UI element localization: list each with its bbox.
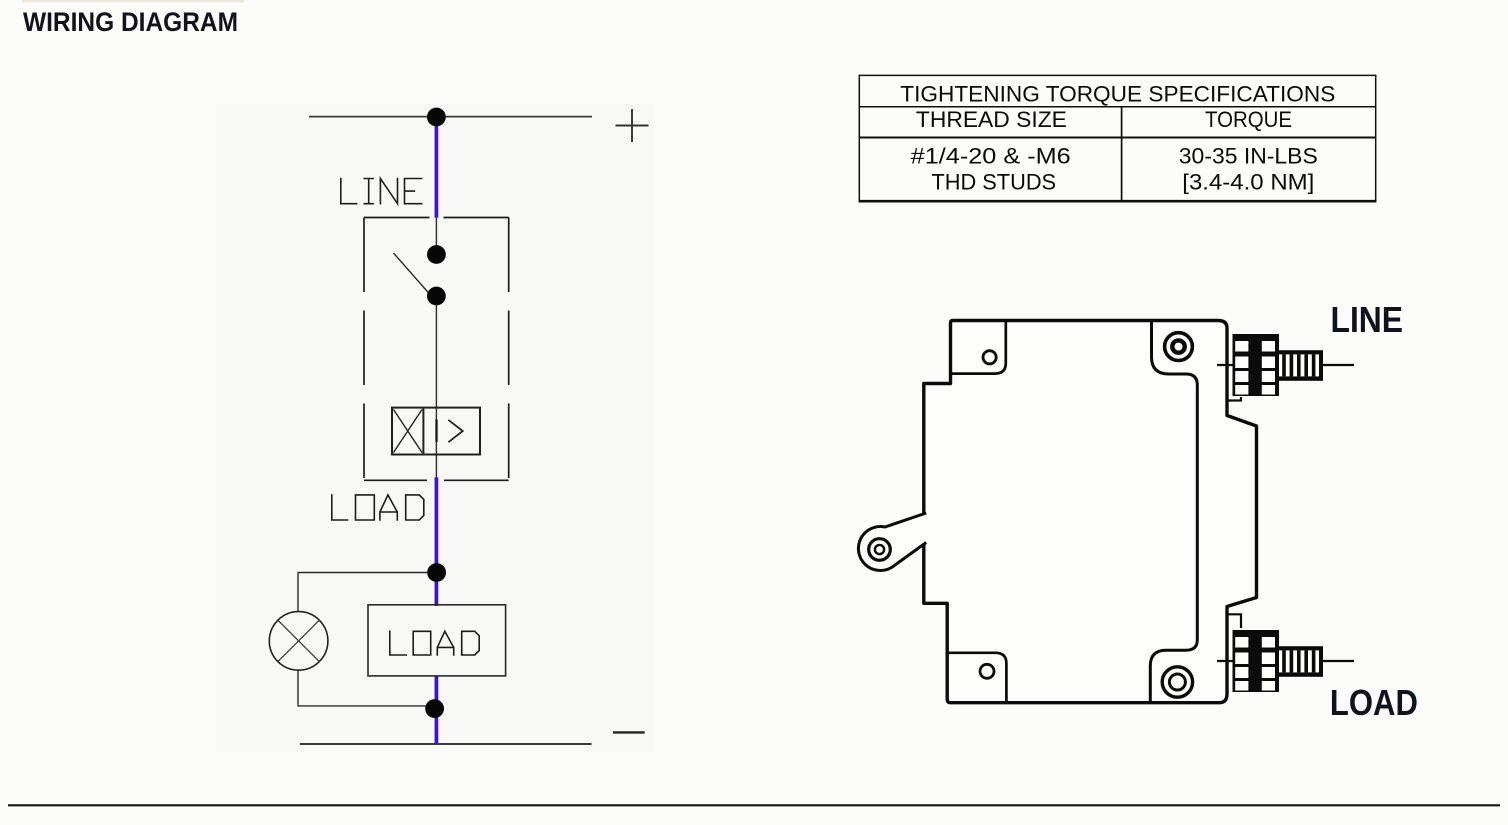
svg-text:#1/4-20 & -M6: #1/4-20 & -M6 (911, 144, 1071, 169)
svg-text:THREAD SIZE: THREAD SIZE (916, 107, 1067, 132)
svg-text:WIRING DIAGRAM: WIRING DIAGRAM (23, 7, 238, 37)
svg-text:THD STUDS: THD STUDS (931, 170, 1056, 195)
svg-text:TIGHTENING TORQUE SPECIFICATIO: TIGHTENING TORQUE SPECIFICATIONS (900, 81, 1335, 106)
svg-text:LINE: LINE (1331, 299, 1404, 340)
svg-text:30-35 IN-LBS: 30-35 IN-LBS (1179, 144, 1318, 169)
svg-text:LOAD: LOAD (1330, 682, 1418, 723)
svg-text:[3.4-4.0 NM]: [3.4-4.0 NM] (1182, 170, 1314, 195)
svg-text:TORQUE: TORQUE (1205, 107, 1292, 132)
